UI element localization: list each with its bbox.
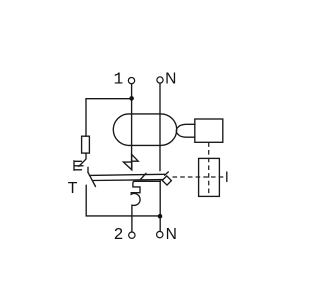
wire line N: terminal N down to fixed contact bbox=[159, 83, 161, 171]
mechanical link dashed vertical bbox=[208, 142, 210, 196]
trip coil box bbox=[195, 119, 223, 142]
flexible conductor squiggle to terminal 2 bbox=[131, 181, 140, 232]
terminal circle N (top) bbox=[157, 77, 163, 83]
node junction dot on line L (test branch tap) bbox=[129, 96, 134, 101]
svg-text:N: N bbox=[166, 226, 177, 243]
trip arrow upper triangle on line L bbox=[132, 154, 139, 161]
terminal circle 1 (top) bbox=[128, 77, 134, 83]
secondary winding neck from toroid bbox=[176, 124, 195, 137]
fixed contact stub left pole bbox=[87, 167, 89, 172]
wire resistor to test contact bbox=[85, 153, 87, 159]
resistor R (test resistor) bbox=[82, 136, 90, 153]
terminal circle N (bottom) bbox=[157, 231, 163, 237]
terminal circle 2 (bottom) bbox=[129, 232, 135, 238]
svg-text:N: N bbox=[165, 71, 176, 88]
wire line L: terminal 1 down to fixed contact bbox=[131, 84, 133, 170]
svg-text:T: T bbox=[68, 180, 78, 197]
linkage end blade diagonal bbox=[165, 172, 169, 175]
svg-text:2: 2 bbox=[114, 225, 124, 244]
manual actuator tick bbox=[226, 172, 228, 182]
relay armature rectangle bbox=[199, 158, 220, 196]
linkage bar top line bbox=[90, 174, 165, 175]
test button contact blade bbox=[79, 159, 86, 166]
trip arrow lower triangle on line L bbox=[123, 162, 131, 170]
test button actuator T bbox=[74, 161, 83, 171]
toroid current transformer core bbox=[113, 114, 176, 145]
switch blade left pole bbox=[88, 172, 96, 186]
linkage bar bottom line bbox=[93, 179, 163, 182]
node junction dot on N lower wire bbox=[158, 214, 163, 219]
wire test branch: junction left and down to resistor bbox=[86, 99, 132, 137]
wire test branch bottom: down and right to N junction bbox=[86, 185, 160, 216]
switch blade N pole tick bbox=[140, 173, 146, 180]
wire contact bridge bbox=[134, 180, 160, 182]
mechanical link dashed horizontal bbox=[173, 176, 226, 178]
linkage handle tilted square bbox=[162, 176, 171, 185]
wire N pole lower: bridge down to terminal N bbox=[159, 181, 161, 232]
svg-text:1: 1 bbox=[114, 70, 124, 89]
